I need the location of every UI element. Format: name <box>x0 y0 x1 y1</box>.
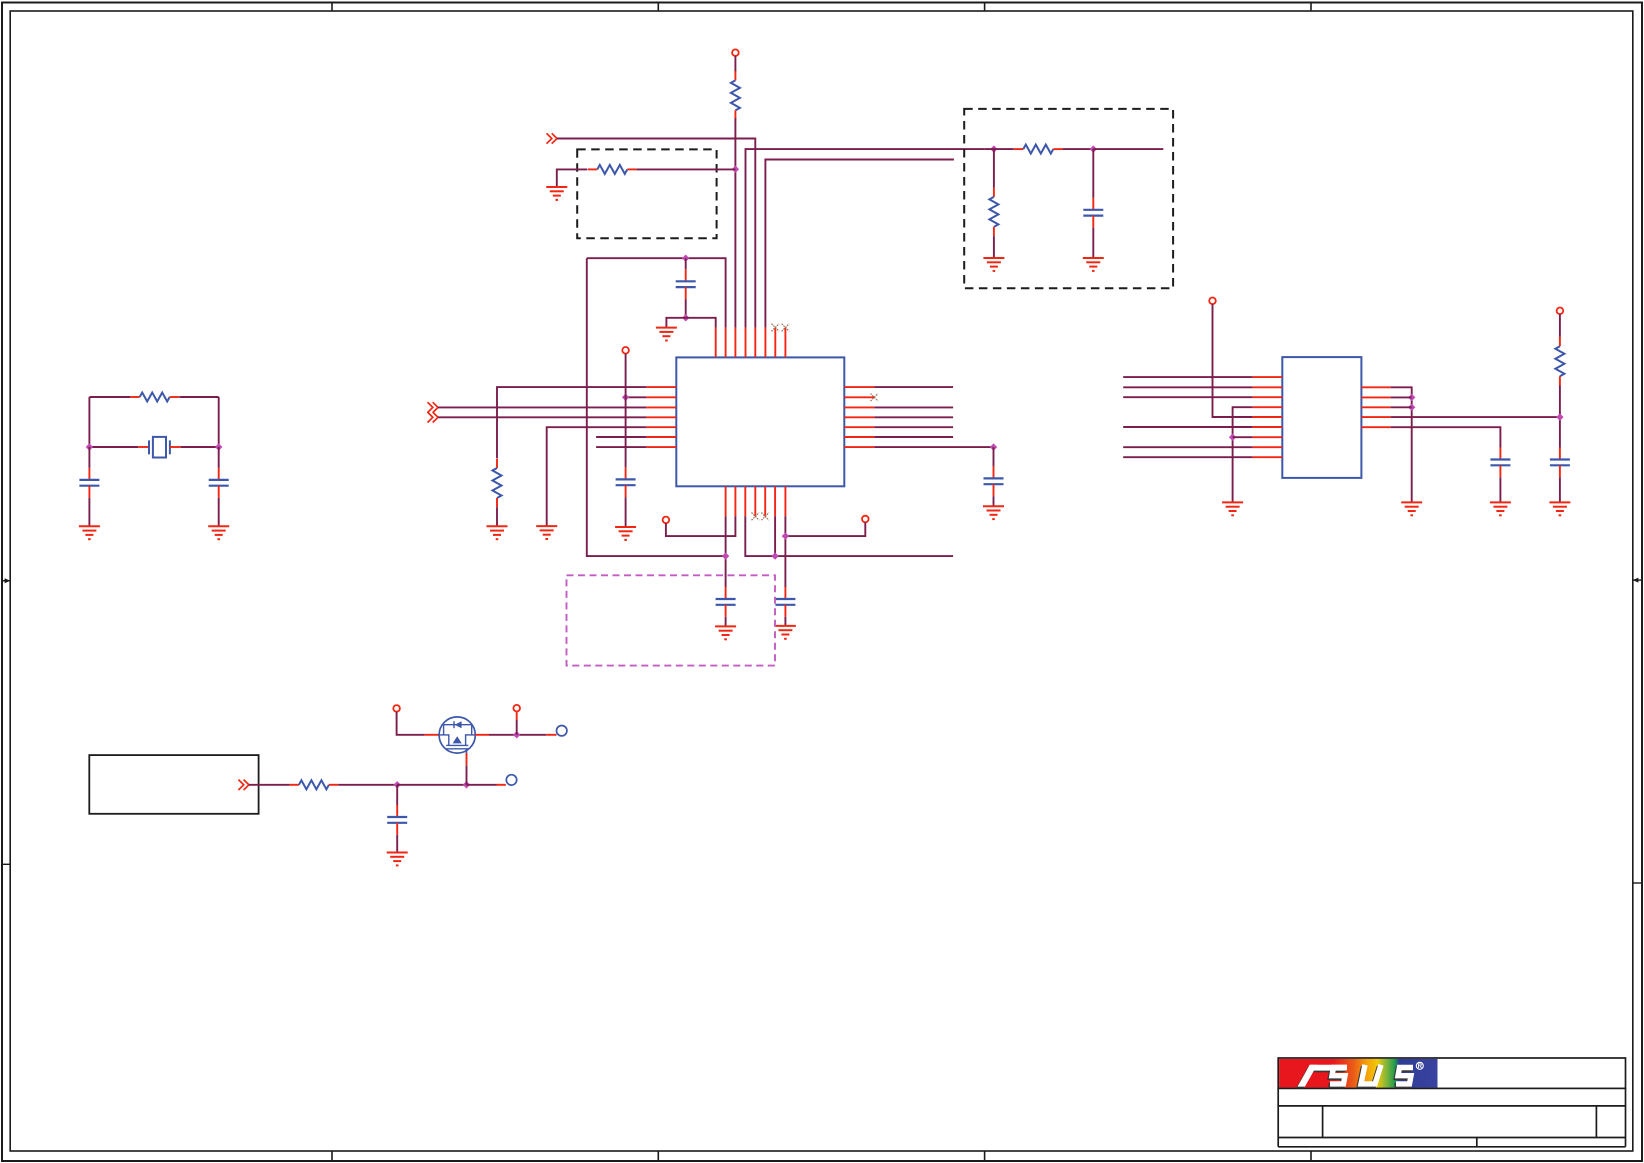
node filter out <box>1090 145 1097 152</box>
border tick left <box>2 863 10 865</box>
wire U2 R5 to C9 <box>1391 427 1501 447</box>
node U2 R2 <box>1408 394 1415 401</box>
wire crystal top left <box>89 396 130 398</box>
ground C6 <box>715 626 736 639</box>
capacitor C10 <box>1550 448 1570 478</box>
node crystal left <box>86 443 93 450</box>
wire R6 top <box>993 149 995 188</box>
block box <box>89 755 258 814</box>
wire pin R3 <box>874 406 953 408</box>
svg-text:R: R <box>1418 1063 1423 1070</box>
node gate cap <box>394 781 401 788</box>
wire U2 R4 <box>1391 416 1560 418</box>
resistor R2 <box>588 165 637 174</box>
wire R4 to ground <box>496 507 498 526</box>
capacitor C6 <box>716 587 736 617</box>
wire to C2 <box>218 447 220 468</box>
resistor R6 <box>989 188 998 237</box>
wire C5 to ground <box>993 496 995 506</box>
border tick bottom 3 <box>984 1151 986 1161</box>
border tick top 3 <box>984 3 986 12</box>
wire C8 to ground <box>1092 228 1094 258</box>
wire filter out <box>1093 148 1163 150</box>
wire node to C5 <box>993 447 995 466</box>
wire crystal row right <box>181 446 219 448</box>
off-page connector top <box>547 133 558 143</box>
node source <box>513 731 520 738</box>
connector pin source <box>557 726 567 736</box>
wire R6 to ground <box>993 236 995 258</box>
wire C9 to ground <box>1499 477 1501 502</box>
wire C4 to ground <box>625 497 627 527</box>
wire U2 L7 <box>1233 436 1253 438</box>
ground crystal left <box>79 526 100 539</box>
ground R6 <box>983 258 1004 271</box>
crystal Y1 <box>138 437 181 458</box>
op-amp U1 <box>676 357 844 486</box>
transistor Q1 <box>439 717 475 753</box>
node R3 net <box>732 166 739 173</box>
wire C6 to ground <box>725 617 727 627</box>
wire gate up <box>466 753 468 785</box>
off-page connector L3 <box>428 402 439 412</box>
node U2 L7 <box>1229 434 1236 441</box>
wire C8 top <box>1092 149 1094 198</box>
resistor R3 <box>731 71 740 120</box>
wire pin R1 <box>874 386 953 388</box>
wire pin L3 <box>438 406 646 408</box>
node C3 bottom <box>682 314 689 321</box>
border tick top 4 <box>1310 3 1312 12</box>
power port VCC8 <box>513 705 520 712</box>
wire VCC1 to R3 <box>734 56 736 73</box>
capacitor C2 <box>209 468 229 498</box>
wire U2 R3 <box>1391 406 1412 408</box>
wire U2 L2 <box>1123 386 1252 388</box>
wire node to C11 <box>396 785 398 805</box>
node R7 <box>990 443 997 450</box>
ground U2 right <box>1401 502 1422 515</box>
wire rail to C3 <box>685 258 687 269</box>
wire crystal row left <box>89 446 138 448</box>
ground C7 <box>775 626 796 639</box>
wire node to ground left <box>666 318 685 328</box>
node crystal right <box>215 443 222 450</box>
wire VCC7 to drain <box>397 712 440 735</box>
wire R7 to node <box>1559 386 1561 448</box>
capacitor C3 <box>676 269 696 299</box>
wire R3 down to pin <box>734 118 736 327</box>
node B1 <box>722 552 729 559</box>
wire crystal left vertical <box>88 397 90 447</box>
wire R2 to node <box>637 168 736 170</box>
ground R2 <box>546 187 567 200</box>
wire pin R7w <box>874 446 993 448</box>
wire pin L7 <box>596 446 646 448</box>
capacitor C5 <box>984 466 1004 496</box>
wire R8 to node <box>338 784 397 786</box>
wire left rail vertical <box>587 258 726 556</box>
wire VCC3 to pin B2 <box>666 516 736 536</box>
power port VCC7 <box>393 705 400 712</box>
wire C3 to node <box>685 299 687 318</box>
wire U2 R2 <box>1391 396 1412 398</box>
wire filter in <box>985 148 1014 150</box>
ground U2 left <box>1222 502 1243 515</box>
capacitor C9 <box>1490 448 1510 478</box>
capacitor C8f <box>1083 198 1103 228</box>
wire U2 L6 <box>1123 426 1252 428</box>
ground crystal right <box>208 526 229 539</box>
wire VCC6 to R7 <box>1559 314 1561 337</box>
wire U2 L8 <box>1123 446 1252 448</box>
no-connect B4 <box>752 513 760 521</box>
U1 bottom pins <box>726 486 786 516</box>
ground C5 <box>983 506 1004 519</box>
wire pin R5w <box>874 426 953 428</box>
wire U2 R1 to ground <box>1391 387 1412 502</box>
U1 left pins <box>646 387 676 447</box>
wire pin L2 <box>626 396 647 398</box>
ground C4 <box>615 527 636 540</box>
U1 top pins <box>716 328 786 358</box>
wire to C1 <box>88 447 90 468</box>
connector pin gate <box>506 775 516 785</box>
node R7C10 <box>1556 413 1563 420</box>
border tick top 1 <box>331 3 333 12</box>
wire U2 L3 <box>1123 396 1252 398</box>
border tick bottom 2 <box>657 1151 659 1161</box>
wire pin L6 <box>596 436 646 438</box>
wire pin L1 to R4 <box>497 387 646 458</box>
resistor R7 <box>1555 337 1564 386</box>
border tick bottom 1 <box>331 1151 333 1161</box>
resistor R8 <box>290 780 339 789</box>
power port VCC5 <box>1209 298 1216 305</box>
capacitor C1 <box>79 468 99 498</box>
resistor R4 <box>493 459 502 508</box>
power port VCC4 <box>862 516 869 523</box>
wire pin T6 up-right <box>765 160 954 328</box>
wire gate out <box>467 784 506 786</box>
title block table <box>1278 1058 1625 1147</box>
node L2 <box>622 394 629 401</box>
wire pin T4 up-right <box>746 149 985 328</box>
node top rail <box>682 255 689 262</box>
wire C10 to ground <box>1559 477 1561 502</box>
ground C3 <box>656 328 677 341</box>
wire C1 to ground <box>88 498 90 527</box>
op-amp U2 <box>1282 357 1361 478</box>
wire VCC2 down to C4 <box>625 354 627 468</box>
wire node to pin T1 <box>686 318 716 328</box>
ground C9 <box>1490 502 1511 515</box>
U2 left pins <box>1252 377 1282 457</box>
wire VCC4 to node B7 <box>785 522 865 536</box>
power port VCC1 <box>732 49 739 56</box>
node filter in <box>990 145 997 152</box>
node gate <box>463 781 470 788</box>
wire crystal top right <box>179 396 218 398</box>
wire filter mid <box>1063 148 1094 150</box>
resistor R5 <box>1014 145 1063 154</box>
dashed box right <box>964 109 1173 288</box>
wire U2 L4 to ground <box>1233 407 1253 502</box>
U2 right pins <box>1361 387 1390 427</box>
wire pin B6 down <box>774 516 776 556</box>
wire VCC5 to U2 pin5 <box>1213 304 1253 417</box>
ground C8 <box>1083 258 1104 271</box>
border arrow left <box>2 578 10 583</box>
node B7 <box>782 532 789 539</box>
wire VCC8 to source <box>516 712 518 735</box>
wire gate in <box>249 784 290 786</box>
capacitor C7 <box>775 587 795 617</box>
off-page connector gate <box>238 780 249 790</box>
ground L5 <box>536 526 557 539</box>
border tick right <box>1633 882 1642 884</box>
wire gate across <box>397 784 466 786</box>
no-connect B5 <box>761 513 769 521</box>
wire offpage to pin T5 <box>557 139 755 328</box>
ground C11 <box>387 853 408 866</box>
capacitor C4 <box>616 467 636 497</box>
border arrow right <box>1633 578 1642 583</box>
wire U2 L9 <box>1123 456 1252 458</box>
wire top rail <box>587 258 726 327</box>
wire pin B3 right <box>745 516 953 556</box>
border tick top 2 <box>657 3 659 12</box>
wire C11 to ground <box>396 835 398 853</box>
ground C10 <box>1549 502 1570 515</box>
no-connect R2pin <box>871 394 879 402</box>
wire pin B7 down <box>784 516 786 587</box>
power port VCC2 <box>622 347 629 354</box>
ASUS logo <box>1279 1059 1437 1088</box>
wire pin R4w <box>874 416 953 418</box>
wire pin B1 down <box>725 516 727 587</box>
resistor R1 <box>130 393 179 402</box>
node U2 R3 <box>1408 404 1415 411</box>
wire R2 left to ground <box>557 169 588 187</box>
border tick bottom 4 <box>1310 1151 1312 1161</box>
node B6 <box>771 552 778 559</box>
wire C2 to ground <box>218 498 220 527</box>
ground R4 <box>487 526 508 539</box>
dashed box bottom magenta <box>567 575 776 665</box>
wire pin R6w <box>874 436 953 438</box>
capacitor C11 <box>387 805 407 835</box>
U1 right pins <box>844 387 874 447</box>
off-page connector L4 <box>428 412 439 422</box>
wire C7 to ground <box>784 617 786 626</box>
wire pin L5 to ground <box>547 427 647 526</box>
wire source right <box>475 734 556 736</box>
dashed box top-left <box>577 149 716 238</box>
no-connect T7 <box>772 324 780 332</box>
wire crystal right vertical <box>218 397 220 447</box>
wire U2 L1 <box>1123 376 1252 378</box>
no-connect T8 <box>782 324 790 332</box>
wire pin L4 <box>438 416 646 418</box>
power port VCC6 <box>1557 308 1564 315</box>
power port VCC3 <box>663 517 670 524</box>
